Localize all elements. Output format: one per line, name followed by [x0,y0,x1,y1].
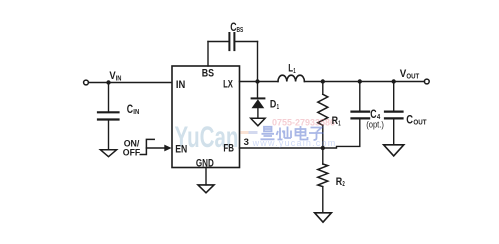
svg-text:LX: LX [223,78,233,91]
svg-text:FB: FB [223,142,234,155]
svg-text:IN: IN [176,79,185,91]
svg-text:GND: GND [196,157,214,170]
svg-text:L: L [288,63,293,76]
svg-text:IN: IN [133,109,139,117]
svg-text:R: R [332,115,339,127]
svg-text:OUT: OUT [413,119,426,126]
svg-text:IN: IN [116,75,122,83]
svg-text:3: 3 [244,137,249,148]
svg-text:OFF: OFF [123,147,141,157]
svg-text:EN: EN [175,143,187,155]
svg-text:BS: BS [202,68,215,80]
svg-text:0755-27933586: 0755-27933586 [272,117,335,127]
svg-text:OUT: OUT [406,73,419,80]
svg-text:C: C [406,114,413,127]
svg-text:D: D [270,99,276,111]
svg-text:(opt.): (opt.) [366,119,384,130]
svg-text:BS: BS [237,28,244,35]
svg-text:2: 2 [342,181,344,188]
svg-text:V: V [400,69,407,81]
svg-text:R: R [336,176,343,188]
